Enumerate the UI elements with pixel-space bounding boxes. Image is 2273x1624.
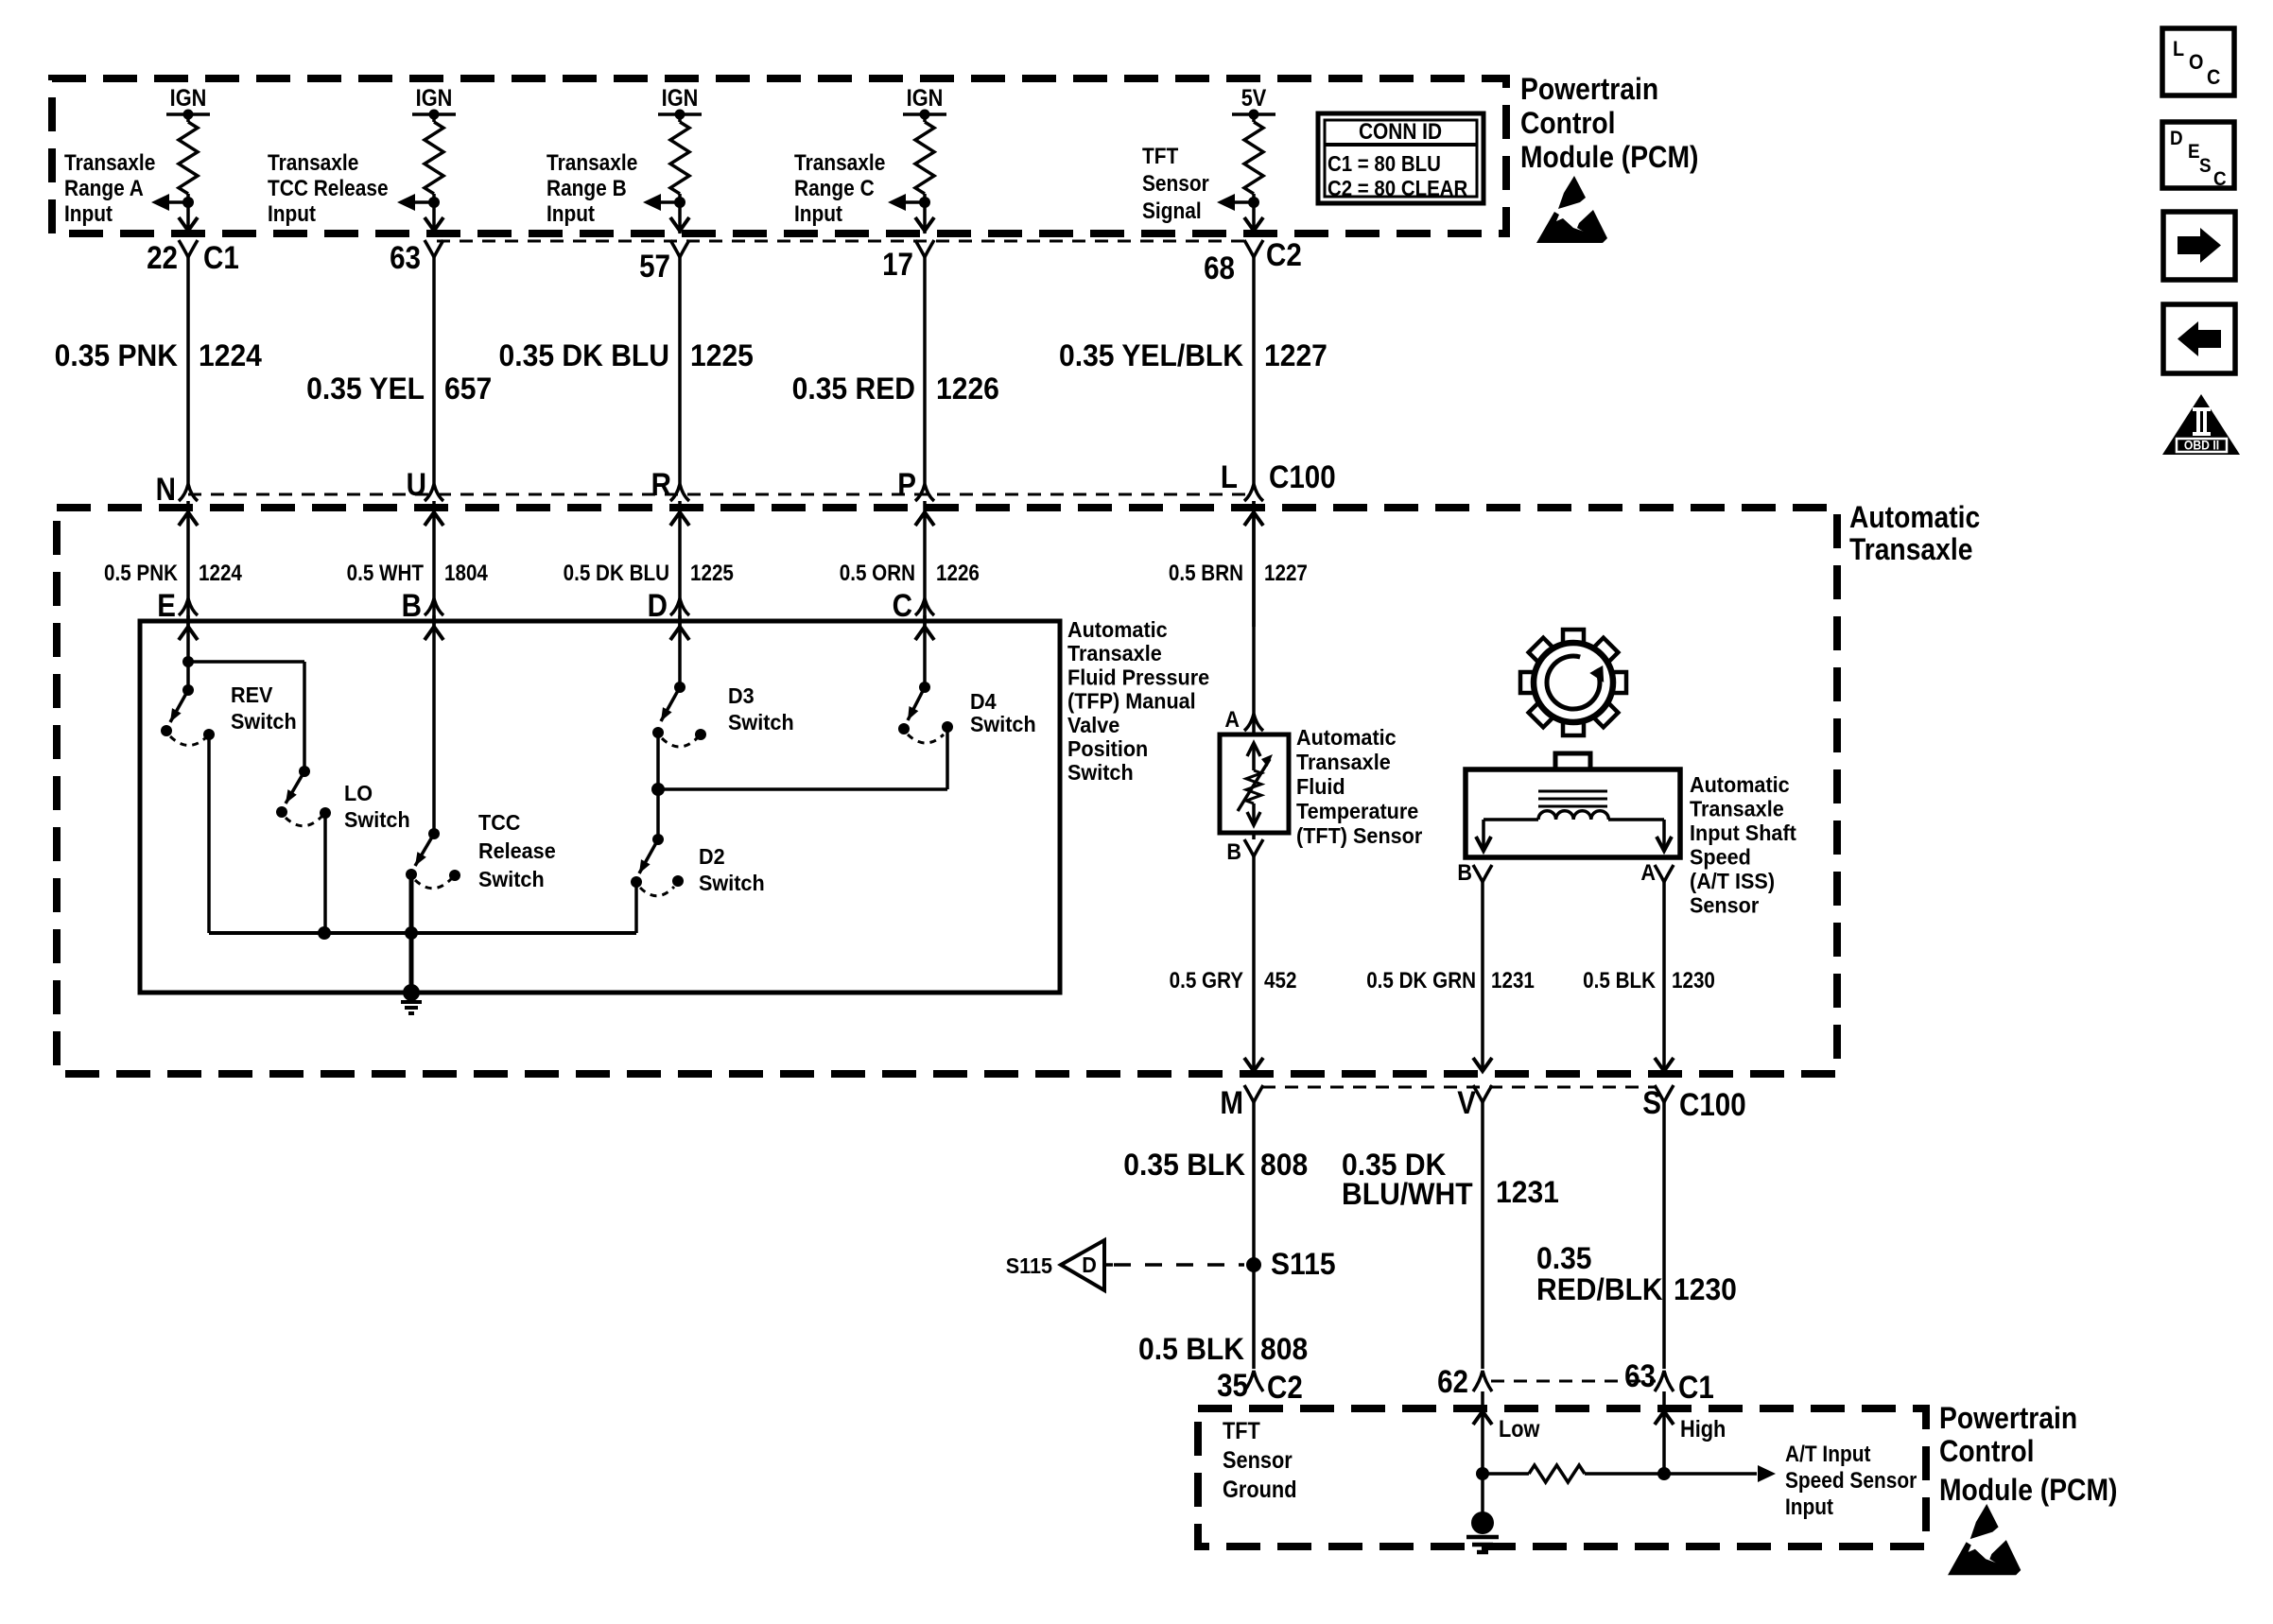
svg-text:B: B bbox=[1226, 838, 1241, 864]
svg-text:Automatic: Automatic bbox=[1690, 772, 1790, 797]
svg-text:(TFT) Sensor: (TFT) Sensor bbox=[1296, 823, 1423, 848]
svg-text:0.5 DK BLU: 0.5 DK BLU bbox=[564, 561, 669, 586]
svg-text:Switch: Switch bbox=[699, 871, 765, 895]
svg-text:Input: Input bbox=[1785, 1494, 1833, 1520]
svg-text:Switch: Switch bbox=[231, 709, 297, 734]
svg-text:Automatic: Automatic bbox=[1849, 500, 1980, 534]
svg-text:Speed: Speed bbox=[1690, 845, 1751, 870]
svg-text:Sensor: Sensor bbox=[1223, 1447, 1293, 1474]
svg-text:57: 57 bbox=[639, 248, 670, 284]
svg-text:A: A bbox=[1224, 706, 1240, 732]
svg-text:Input: Input bbox=[64, 201, 113, 227]
svg-text:5V: 5V bbox=[1241, 85, 1267, 112]
svg-text:Transaxle: Transaxle bbox=[794, 150, 885, 176]
svg-text:Speed Sensor: Speed Sensor bbox=[1785, 1468, 1917, 1494]
svg-text:1226: 1226 bbox=[936, 561, 980, 586]
svg-text:17: 17 bbox=[882, 246, 913, 282]
svg-text:TFT: TFT bbox=[1142, 144, 1178, 169]
svg-text:1226: 1226 bbox=[936, 371, 999, 406]
svg-text:0.35: 0.35 bbox=[1536, 1241, 1592, 1275]
svg-text:Transaxle: Transaxle bbox=[1849, 532, 1972, 566]
svg-text:Switch: Switch bbox=[1067, 761, 1134, 786]
svg-text:Automatic: Automatic bbox=[1296, 725, 1397, 750]
svg-text:1225: 1225 bbox=[690, 338, 754, 372]
svg-text:1231: 1231 bbox=[1496, 1175, 1559, 1209]
svg-text:Sensor: Sensor bbox=[1142, 171, 1209, 197]
svg-text:C: C bbox=[893, 587, 912, 623]
svg-text:REV: REV bbox=[231, 682, 273, 707]
svg-text:(TFP) Manual: (TFP) Manual bbox=[1067, 689, 1196, 714]
svg-text:1224: 1224 bbox=[199, 561, 242, 586]
svg-text:Input: Input bbox=[794, 201, 842, 227]
svg-text:C100: C100 bbox=[1269, 458, 1336, 494]
svg-text:D: D bbox=[1082, 1253, 1097, 1277]
svg-text:Transaxle: Transaxle bbox=[1296, 750, 1391, 774]
svg-text:LO: LO bbox=[344, 781, 373, 805]
svg-text:0.5 DK GRN: 0.5 DK GRN bbox=[1366, 968, 1476, 993]
svg-text:0.35 RED: 0.35 RED bbox=[792, 371, 915, 406]
svg-text:0.5 BLK: 0.5 BLK bbox=[1138, 1332, 1245, 1366]
svg-text:B: B bbox=[402, 587, 422, 623]
svg-text:C2: C2 bbox=[1267, 1369, 1303, 1405]
svg-text:C2 = 80 CLEAR: C2 = 80 CLEAR bbox=[1327, 176, 1467, 201]
svg-text:S: S bbox=[1642, 1084, 1661, 1120]
svg-text:1804: 1804 bbox=[444, 561, 488, 586]
svg-text:Automatic: Automatic bbox=[1067, 617, 1168, 642]
svg-text:Fluid: Fluid bbox=[1296, 774, 1345, 799]
svg-text:IGN: IGN bbox=[170, 85, 207, 112]
svg-text:62: 62 bbox=[1437, 1363, 1468, 1399]
svg-text:U: U bbox=[407, 466, 426, 502]
svg-text:808: 808 bbox=[1260, 1148, 1308, 1182]
svg-text:L: L bbox=[1221, 458, 1238, 494]
svg-text:1230: 1230 bbox=[1674, 1272, 1737, 1306]
svg-text:Transaxle: Transaxle bbox=[268, 150, 358, 176]
svg-text:Powertrain: Powertrain bbox=[1939, 1401, 2077, 1435]
svg-text:D2: D2 bbox=[699, 844, 725, 869]
svg-text:Switch: Switch bbox=[478, 867, 545, 891]
svg-text:TCC Release: TCC Release bbox=[268, 176, 389, 201]
svg-text:V: V bbox=[1457, 1084, 1476, 1120]
svg-text:657: 657 bbox=[444, 371, 492, 406]
svg-text:S115: S115 bbox=[1006, 1253, 1052, 1278]
svg-text:1225: 1225 bbox=[690, 561, 734, 586]
svg-text:TFT: TFT bbox=[1223, 1418, 1260, 1444]
svg-text:0.35 BLK: 0.35 BLK bbox=[1123, 1148, 1245, 1182]
svg-text:Range C: Range C bbox=[794, 176, 875, 201]
svg-text:Sensor: Sensor bbox=[1690, 893, 1760, 918]
svg-text:Switch: Switch bbox=[728, 710, 794, 734]
svg-text:452: 452 bbox=[1264, 968, 1296, 993]
svg-text:Control: Control bbox=[1520, 106, 1615, 140]
svg-text:808: 808 bbox=[1260, 1332, 1308, 1366]
svg-text:IGN: IGN bbox=[416, 85, 453, 112]
svg-text:D3: D3 bbox=[728, 683, 755, 708]
svg-text:High: High bbox=[1680, 1416, 1726, 1443]
svg-text:Switch: Switch bbox=[344, 807, 410, 832]
svg-text:Control: Control bbox=[1939, 1434, 2034, 1468]
svg-text:C1 = 80 BLU: C1 = 80 BLU bbox=[1327, 151, 1441, 177]
svg-text:0.5 ORN: 0.5 ORN bbox=[840, 561, 915, 586]
svg-text:0.5 GRY: 0.5 GRY bbox=[1170, 968, 1243, 993]
svg-text:L: L bbox=[2173, 38, 2184, 60]
svg-text:Range B: Range B bbox=[547, 176, 627, 201]
svg-text:C1: C1 bbox=[1678, 1369, 1714, 1405]
svg-text:A: A bbox=[1640, 859, 1656, 885]
svg-text:Low: Low bbox=[1499, 1416, 1540, 1443]
svg-text:63: 63 bbox=[1624, 1357, 1656, 1393]
svg-text:1224: 1224 bbox=[199, 338, 263, 372]
svg-text:Input: Input bbox=[547, 201, 595, 227]
svg-text:C100: C100 bbox=[1679, 1086, 1746, 1122]
svg-text:BLU/WHT: BLU/WHT bbox=[1342, 1177, 1473, 1211]
svg-text:D4: D4 bbox=[970, 689, 997, 714]
svg-text:Transaxle: Transaxle bbox=[64, 150, 155, 176]
svg-text:B: B bbox=[1457, 859, 1472, 885]
svg-text:D: D bbox=[648, 587, 668, 623]
svg-text:Transaxle: Transaxle bbox=[1067, 642, 1162, 666]
svg-text:22: 22 bbox=[147, 239, 178, 275]
svg-text:1231: 1231 bbox=[1491, 968, 1535, 993]
svg-text:Powertrain: Powertrain bbox=[1520, 72, 1658, 106]
svg-text:RED/BLK: RED/BLK bbox=[1536, 1272, 1663, 1306]
svg-text:1230: 1230 bbox=[1672, 968, 1715, 993]
svg-text:Signal: Signal bbox=[1142, 199, 1202, 224]
svg-text:Transaxle: Transaxle bbox=[547, 150, 637, 176]
svg-text:0.35 DK BLU: 0.35 DK BLU bbox=[499, 338, 669, 372]
svg-text:Input: Input bbox=[268, 201, 316, 227]
svg-text:0.5 BLK: 0.5 BLK bbox=[1583, 968, 1656, 993]
svg-text:IGN: IGN bbox=[662, 85, 699, 112]
svg-text:C: C bbox=[2207, 66, 2220, 89]
svg-text:1227: 1227 bbox=[1264, 561, 1308, 586]
svg-text:1227: 1227 bbox=[1264, 338, 1327, 372]
svg-text:(A/T ISS): (A/T ISS) bbox=[1690, 869, 1775, 893]
svg-text:OBD II: OBD II bbox=[2184, 438, 2219, 453]
svg-text:35: 35 bbox=[1217, 1367, 1248, 1403]
svg-text:C: C bbox=[2213, 168, 2227, 190]
svg-text:CONN ID: CONN ID bbox=[1359, 119, 1442, 145]
svg-text:M: M bbox=[1220, 1084, 1243, 1120]
svg-text:E: E bbox=[2188, 141, 2200, 163]
svg-text:0.35 YEL/BLK: 0.35 YEL/BLK bbox=[1059, 338, 1244, 372]
svg-text:0.35 YEL: 0.35 YEL bbox=[306, 371, 425, 406]
svg-text:Switch: Switch bbox=[970, 712, 1036, 736]
svg-text:C2: C2 bbox=[1266, 236, 1302, 272]
svg-text:R: R bbox=[651, 466, 671, 502]
svg-text:63: 63 bbox=[390, 239, 421, 275]
svg-text:Fluid Pressure: Fluid Pressure bbox=[1067, 665, 1209, 690]
svg-text:Input Shaft: Input Shaft bbox=[1690, 821, 1796, 845]
svg-text:0.5 BRN: 0.5 BRN bbox=[1169, 561, 1243, 586]
svg-text:O: O bbox=[2189, 51, 2203, 74]
svg-text:Temperature: Temperature bbox=[1296, 799, 1418, 823]
svg-text:0.5 PNK: 0.5 PNK bbox=[104, 561, 178, 586]
svg-text:Range A: Range A bbox=[64, 176, 144, 201]
svg-text:IGN: IGN bbox=[907, 85, 944, 112]
svg-text:Module (PCM): Module (PCM) bbox=[1939, 1473, 2117, 1507]
svg-text:P: P bbox=[897, 466, 916, 502]
svg-text:S115: S115 bbox=[1271, 1247, 1336, 1281]
svg-text:Ground: Ground bbox=[1223, 1477, 1296, 1503]
svg-text:N: N bbox=[156, 471, 176, 507]
svg-text:0.35 PNK: 0.35 PNK bbox=[55, 338, 179, 372]
svg-text:Position: Position bbox=[1067, 736, 1148, 761]
svg-text:68: 68 bbox=[1204, 250, 1235, 285]
svg-text:Release: Release bbox=[478, 838, 556, 863]
svg-text:S: S bbox=[2199, 155, 2212, 177]
svg-text:Valve: Valve bbox=[1067, 713, 1119, 737]
svg-text:TCC: TCC bbox=[478, 810, 520, 835]
svg-text:Module (PCM): Module (PCM) bbox=[1520, 140, 1698, 174]
svg-text:Transaxle: Transaxle bbox=[1690, 797, 1784, 821]
svg-text:E: E bbox=[157, 587, 176, 623]
svg-text:D: D bbox=[2170, 128, 2183, 149]
svg-text:C1: C1 bbox=[203, 239, 239, 275]
svg-text:A/T Input: A/T Input bbox=[1785, 1442, 1871, 1467]
svg-text:0.5 WHT: 0.5 WHT bbox=[347, 561, 425, 586]
